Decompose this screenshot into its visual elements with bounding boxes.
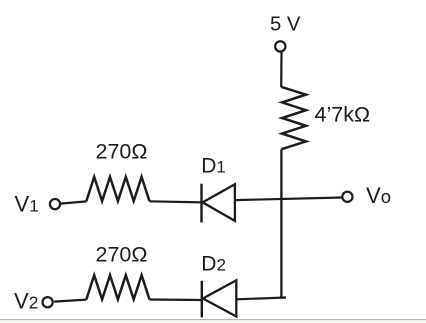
resistor R2 zigzag <box>86 177 149 202</box>
diode D2 triangle <box>203 280 236 316</box>
svg-text:Vo: Vo <box>366 183 391 208</box>
diode D2 cathode bar <box>201 281 203 318</box>
bottom slide edge rule <box>0 319 426 320</box>
svg-text:D2: D2 <box>201 252 226 275</box>
wire D1 anode to Vo terminal <box>235 198 342 201</box>
wire D2 anode to node on R1 branch <box>236 298 286 300</box>
terminal 5V <box>275 41 285 51</box>
terminal Vo <box>342 192 352 202</box>
svg-text:270Ω: 270Ω <box>96 242 148 266</box>
wire V1 terminal to R2 <box>61 201 87 203</box>
svg-text:4’7kΩ: 4’7kΩ <box>315 103 371 127</box>
wire V2 terminal to R3 <box>54 300 86 302</box>
terminal V2 <box>43 297 53 307</box>
terminal V1 <box>50 199 60 209</box>
resistor R1 zigzag <box>281 87 306 149</box>
svg-text:270Ω: 270Ω <box>96 140 148 164</box>
svg-text:V2: V2 <box>14 289 38 314</box>
svg-text:V1: V1 <box>15 192 39 217</box>
wire 5V terminal to R1 <box>280 52 282 87</box>
resistor R3 zigzag <box>86 275 149 299</box>
svg-text:D1: D1 <box>201 155 225 178</box>
diode D1 cathode bar <box>200 184 202 223</box>
wire R2 to D1 cathode <box>150 201 202 202</box>
wire R3 to D2 cathode <box>150 298 202 301</box>
svg-text:5 V: 5 V <box>270 13 301 35</box>
diode D1 triangle <box>203 184 235 221</box>
wire R1 down to D2 node (crosses Vo wire) <box>280 149 282 297</box>
